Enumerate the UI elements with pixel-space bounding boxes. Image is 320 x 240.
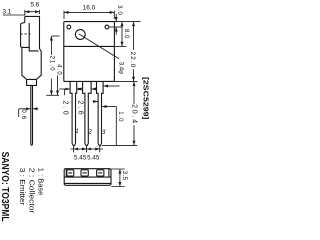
dimension 3.1 leader line	[3, 14, 25, 16]
dimension 0.6 tick	[18, 109, 20, 117]
dimension 2.0/2.6 middle arrows	[77, 88, 83, 90]
svg-text:3.4φ: 3.4φ	[118, 62, 124, 74]
dimension 16.0 extension lines	[64, 11, 114, 20]
side view lead	[31, 85, 33, 145]
svg-text:3.0: 3.0	[116, 5, 122, 15]
dimension 16.0 line	[64, 11, 114, 13]
dimension 3.5 line	[119, 169, 121, 187]
stub3 arrow	[104, 85, 120, 87]
svg-text:16.0: 16.0	[83, 5, 96, 12]
lead 3 stub and lead	[97, 81, 104, 146]
dimension 0.6 arrow right	[33, 108, 38, 110]
dimension 1.0 arrow right	[102, 106, 116, 108]
svg-text:3.5: 3.5	[121, 171, 128, 181]
dimension 0.6 arrow left	[19, 108, 31, 110]
svg-text:5.45: 5.45	[74, 155, 87, 162]
bottom view internal line upper	[64, 176, 111, 178]
svg-text:22.0: 22.0	[129, 51, 136, 68]
dimension 2.0 arrows	[59, 88, 70, 90]
front view body outline	[64, 22, 115, 82]
svg-text:2.6: 2.6	[77, 101, 84, 117]
svg-text:1 : Base: 1 : Base	[36, 168, 45, 196]
lead pitch extension lines	[74, 147, 100, 153]
dimension 20.4 line upper	[133, 82, 135, 104]
side view outline	[22, 16, 41, 85]
dimension 3.0 upper arrow	[115, 14, 117, 22]
dimension 21.0/4.0 bottom tick	[46, 94, 59, 96]
side view front face upper	[24, 16, 26, 21]
svg-text:8.0: 8.0	[123, 29, 129, 39]
bottom view outline	[64, 169, 111, 186]
front view small hole right	[105, 25, 109, 29]
lead tip extension line	[102, 144, 137, 146]
side view hole center dashed line	[20, 33, 30, 35]
top edge extension	[114, 21, 140, 23]
dimension 8.0 line	[121, 22, 123, 47]
svg-text:SANYO: TO3PML: SANYO: TO3PML	[0, 152, 10, 222]
svg-text:[2SC5299]: [2SC5299]	[142, 77, 150, 120]
dimension 4.0 line	[57, 76, 59, 96]
mounting hole leader line	[79, 34, 119, 59]
svg-text:2: 2	[87, 129, 92, 136]
svg-text:1: 1	[75, 128, 78, 135]
svg-text:20.4: 20.4	[131, 104, 138, 125]
lead 2 stub and lead	[83, 81, 92, 146]
lead 1 stub and lead	[70, 81, 77, 146]
dimension 5.6 extension lines	[25, 10, 40, 16]
svg-text:1.0: 1.0	[117, 111, 123, 122]
bottom view internal line lower	[64, 182, 111, 184]
front view mounting hole	[75, 30, 85, 40]
dimension 5.45 left span	[74, 148, 87, 150]
svg-text:2.0: 2.0	[61, 101, 68, 117]
bottom view lead section 1	[67, 170, 74, 176]
bottom edge extension	[114, 80, 137, 82]
dimension 20.4 line lower	[133, 125, 135, 145]
bottom view lead section 2	[81, 170, 88, 176]
dimension 5.6 line	[25, 11, 40, 13]
dimension 22.0 line upper	[133, 22, 135, 50]
dimension 3.5 ticks	[111, 169, 124, 187]
svg-text:3: 3	[102, 129, 106, 136]
front view small hole left	[67, 25, 71, 29]
side view hole boss	[21, 21, 30, 47]
dimension 3.0 lower arrow	[115, 27, 117, 34]
side view boss step	[29, 47, 38, 51]
internal line extension	[114, 45, 126, 47]
dimension 2.6 right arrow	[91, 88, 96, 90]
dimension 21.0 line upper	[50, 36, 52, 55]
svg-text:5.6: 5.6	[30, 1, 39, 8]
bottom view lead section 3	[97, 170, 104, 176]
svg-text:5.45: 5.45	[87, 155, 100, 162]
dimension 5.45 right span	[87, 148, 100, 150]
dimension 1.0 leader elbow	[115, 107, 117, 146]
svg-text:21.0: 21.0	[49, 56, 55, 72]
dimension 5.45 tails	[70, 148, 103, 150]
dimension 21.0 line lower	[50, 79, 52, 96]
dimension 21.0 top tick	[52, 35, 60, 37]
front view tab/body internal line	[64, 45, 115, 47]
dimension 22.0 line lower	[133, 69, 135, 81]
dimension 1.0 arrow left	[93, 101, 98, 103]
svg-text:0.6: 0.6	[20, 109, 26, 120]
svg-text:4.0: 4.0	[55, 64, 61, 76]
svg-text:2 : Collector: 2 : Collector	[27, 168, 36, 214]
bottom view end verticals	[66, 169, 109, 177]
hole centerline extension	[109, 26, 123, 28]
svg-text:3 : Emitter: 3 : Emitter	[18, 168, 27, 206]
